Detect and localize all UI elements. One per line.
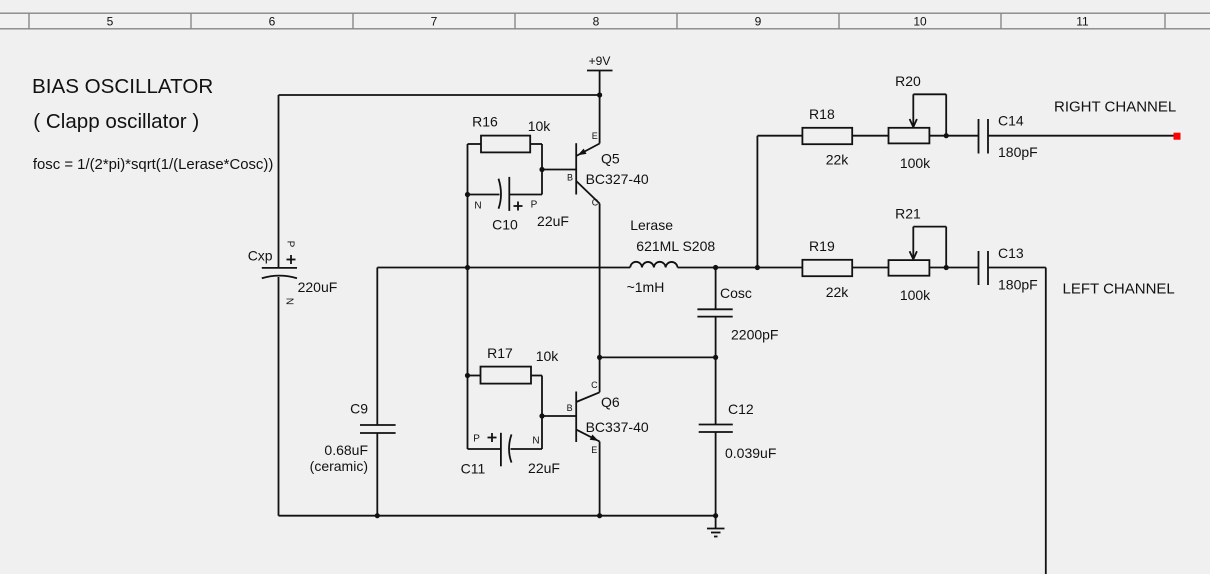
svg-text:C: C [591,380,598,390]
svg-text:+9V: +9V [589,54,611,68]
svg-text:22k: 22k [826,152,850,168]
svg-text:0.68uF: 0.68uF [324,442,368,458]
svg-text:180pF: 180pF [998,276,1038,292]
svg-text:9: 9 [755,15,762,29]
svg-text:C13: C13 [998,245,1024,261]
svg-text:10k: 10k [536,348,560,364]
svg-text:RIGHT CHANNEL: RIGHT CHANNEL [1054,99,1176,116]
svg-text:10k: 10k [528,118,552,134]
svg-text:B: B [567,403,573,413]
svg-text:BC327-40: BC327-40 [586,171,649,187]
svg-text:Cxp: Cxp [248,247,273,263]
svg-text:R16: R16 [472,114,498,130]
svg-text:E: E [591,445,597,455]
svg-text:7: 7 [431,15,438,29]
svg-text:22uF: 22uF [528,460,560,476]
svg-text:P: P [473,434,480,445]
svg-text:N: N [284,298,295,305]
svg-text:B: B [567,173,573,183]
svg-text:fosc = 1/(2*pi)*sqrt(1/(Lerase: fosc = 1/(2*pi)*sqrt(1/(Lerase*Cosc)) [33,157,273,173]
svg-text:N: N [532,436,539,447]
svg-text:100k: 100k [900,287,931,303]
svg-text:180pF: 180pF [998,144,1038,160]
svg-text:(ceramic): (ceramic) [310,458,368,474]
svg-text:5: 5 [107,15,114,29]
svg-text:P: P [531,200,538,211]
svg-text:P: P [285,241,296,248]
svg-text:( Clapp oscillator ): ( Clapp oscillator ) [33,110,199,133]
svg-text:22uF: 22uF [537,213,569,229]
svg-text:Q6: Q6 [601,394,620,410]
svg-text:Q5: Q5 [601,151,620,167]
svg-text:8: 8 [593,15,600,29]
svg-text:621ML S208: 621ML S208 [636,238,715,254]
svg-text:11: 11 [1076,15,1089,29]
svg-text:C10: C10 [492,217,518,233]
svg-text:C12: C12 [728,401,754,417]
svg-text:R18: R18 [809,106,835,122]
svg-text:6: 6 [269,15,276,29]
svg-text:22k: 22k [826,284,850,300]
svg-text:2200pF: 2200pF [731,327,778,343]
svg-text:BIAS OSCILLATOR: BIAS OSCILLATOR [32,75,213,98]
svg-text:R21: R21 [895,205,921,221]
svg-text:R17: R17 [487,345,513,361]
svg-text:BC337-40: BC337-40 [586,419,649,435]
svg-text:R20: R20 [895,73,921,89]
svg-text:~1mH: ~1mH [627,279,665,295]
svg-text:N: N [474,201,481,212]
svg-text:LEFT CHANNEL: LEFT CHANNEL [1063,281,1175,298]
svg-text:0.039uF: 0.039uF [725,445,776,461]
svg-text:R19: R19 [809,238,835,254]
svg-text:10: 10 [913,15,927,29]
svg-text:Lerase: Lerase [630,217,673,233]
svg-text:C9: C9 [350,401,368,417]
svg-text:C: C [592,198,599,208]
svg-text:E: E [592,131,598,141]
svg-text:100k: 100k [900,155,931,171]
svg-text:Cosc: Cosc [720,285,752,301]
svg-text:C11: C11 [461,461,486,477]
svg-text:C14: C14 [998,113,1024,129]
svg-text:220uF: 220uF [298,279,338,295]
